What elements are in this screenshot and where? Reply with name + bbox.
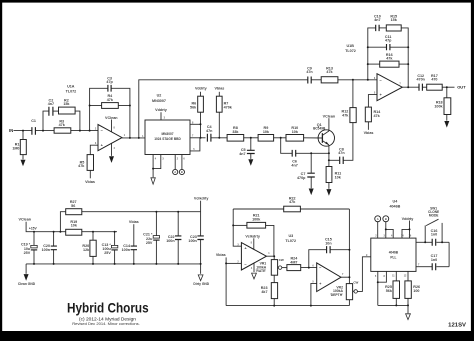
svg-text:4n7: 4n7 (48, 102, 54, 106)
svg-text:1M0: 1M0 (12, 147, 19, 151)
svg-text:U3: U3 (288, 234, 293, 238)
svg-text:100n: 100n (42, 248, 51, 252)
svg-text:47k: 47k (374, 114, 381, 118)
svg-text:47k: 47k (59, 123, 66, 127)
svg-text:470k: 470k (224, 106, 233, 110)
svg-text:PLL: PLL (390, 255, 396, 259)
svg-text:1024 STAGE BBD: 1024 STAGE BBD (154, 137, 181, 141)
svg-text:1n0: 1n0 (431, 233, 437, 237)
svg-text:47n: 47n (306, 70, 313, 74)
svg-text:4n7: 4n7 (239, 152, 245, 156)
svg-text:VClean: VClean (19, 217, 32, 221)
svg-text:OUT: OUT (457, 85, 466, 90)
svg-text:10k: 10k (263, 130, 270, 134)
svg-text:TL072: TL072 (285, 239, 296, 243)
svg-text:Clean GND: Clean GND (18, 282, 36, 286)
svg-text:Vbias: Vbias (129, 220, 139, 224)
svg-text:Vbias: Vbias (216, 253, 226, 257)
svg-text:VClean: VClean (323, 114, 336, 118)
svg-text:Vddrty: Vddrty (402, 217, 415, 221)
svg-text:100n: 100n (166, 239, 175, 243)
svg-text:25V: 25V (24, 251, 31, 255)
svg-text:15k: 15k (391, 18, 398, 22)
svg-text:C1: C1 (31, 119, 36, 123)
svg-text:121SV: 121SV (448, 323, 466, 329)
svg-text:47k: 47k (326, 70, 333, 74)
svg-text:Vbias: Vbias (85, 180, 95, 184)
svg-text:Vbias: Vbias (214, 86, 224, 90)
svg-text:47k: 47k (289, 200, 296, 204)
svg-text:U2: U2 (157, 93, 162, 97)
svg-text:10k: 10k (292, 130, 299, 134)
svg-text:56k: 56k (190, 106, 197, 110)
svg-text:Revised Dec 2014. Minor correc: Revised Dec 2014. Minor corrections. (72, 322, 140, 326)
svg-text:A: A (377, 217, 379, 221)
svg-text:10n: 10n (325, 241, 332, 245)
svg-text:4n7: 4n7 (374, 18, 380, 22)
svg-text:100n: 100n (122, 248, 131, 252)
svg-text:10k: 10k (71, 224, 78, 228)
svg-text:47k: 47k (342, 114, 349, 118)
svg-text:33k: 33k (232, 130, 239, 134)
svg-text:47k: 47k (386, 57, 393, 61)
svg-text:'RATE': 'RATE' (256, 269, 267, 273)
svg-text:CW: CW (353, 280, 358, 284)
svg-text:100k: 100k (252, 217, 261, 221)
svg-text:BC549B: BC549B (313, 126, 326, 130)
svg-text:56: 56 (71, 204, 75, 208)
svg-text:U1B: U1B (347, 44, 355, 48)
svg-text:4046B: 4046B (389, 250, 399, 254)
svg-text:47p: 47p (385, 39, 392, 43)
svg-text:Vddrty: Vddrty (195, 86, 208, 90)
svg-text:VClean: VClean (105, 116, 118, 120)
svg-text:100n: 100n (188, 239, 197, 243)
svg-text:15k: 15k (63, 102, 70, 106)
svg-text:25V: 25V (146, 241, 153, 245)
svg-text:TL072: TL072 (66, 89, 77, 93)
svg-text:TL072: TL072 (345, 49, 356, 53)
svg-text:47p: 47p (106, 80, 113, 84)
svg-text:MN3007: MN3007 (152, 99, 166, 103)
svg-text:Vbias: Vbias (364, 131, 374, 135)
svg-text:470: 470 (431, 78, 437, 82)
svg-text:Vddrty: Vddrty (155, 108, 168, 112)
svg-text:12k: 12k (83, 248, 90, 252)
svg-text:Vclkdrty: Vclkdrty (245, 234, 261, 238)
svg-text:Hybrid Chorus: Hybrid Chorus (67, 300, 149, 316)
svg-text:B: B (385, 217, 387, 221)
svg-text:470p: 470p (297, 176, 306, 180)
svg-text:47n: 47n (206, 129, 213, 133)
svg-text:47n: 47n (338, 151, 345, 155)
svg-text:IN: IN (9, 128, 13, 133)
svg-text:+15V: +15V (29, 227, 38, 231)
svg-text:MODE: MODE (429, 213, 439, 217)
svg-text:Dirty GND: Dirty GND (193, 282, 209, 286)
svg-text:56k: 56k (386, 289, 393, 293)
svg-text:'DEPTH': 'DEPTH' (330, 293, 343, 297)
svg-text:CW: CW (279, 258, 284, 262)
svg-text:1n0: 1n0 (431, 258, 437, 262)
svg-text:4M7: 4M7 (290, 260, 297, 264)
svg-text:47k: 47k (78, 164, 85, 168)
svg-text:B: B (181, 170, 183, 174)
svg-text:4n7: 4n7 (291, 163, 297, 167)
svg-text:MN3007: MN3007 (161, 132, 173, 136)
svg-text:4k7: 4k7 (261, 290, 267, 294)
svg-text:U1A: U1A (67, 85, 75, 89)
svg-text:47k: 47k (107, 98, 114, 102)
svg-text:25V: 25V (104, 251, 111, 255)
svg-text:Vclkdrty: Vclkdrty (194, 197, 210, 201)
svg-text:100k: 100k (434, 105, 443, 109)
svg-text:470n: 470n (416, 78, 425, 82)
svg-text:10k: 10k (335, 175, 342, 179)
svg-text:100: 100 (413, 289, 419, 293)
svg-text:A: A (174, 170, 176, 174)
svg-text:4046B: 4046B (389, 205, 400, 209)
